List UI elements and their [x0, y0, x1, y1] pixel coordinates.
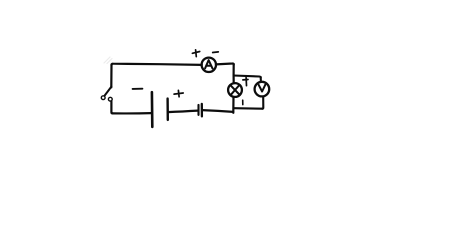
voltmeter V1 letter V [259, 85, 266, 92]
switch S1 terminal circle right [108, 97, 112, 101]
battery B1 long plate (left) [151, 92, 154, 127]
battery B1 negative label "-" [133, 88, 143, 90]
lamp L1 cross stroke 2 [231, 85, 240, 95]
voltmeter V1 circle [255, 82, 270, 97]
ammeter A1 negative label "-" [213, 51, 219, 54]
lamp L1 circle [228, 83, 242, 97]
battery B1 positive label "+" [174, 93, 183, 94]
battery B1 short plate (right) [166, 99, 169, 120]
wire voltmeter bottom vertical [262, 97, 263, 109]
cell B2 plate left [197, 105, 199, 115]
wire voltmeter branch bottom horizontal to lamp wire [234, 107, 262, 110]
wire voltmeter branch top horizontal [234, 76, 261, 78]
switch S1 blade [105, 87, 112, 96]
wire lamp bottom to main bottom wire [232, 97, 234, 113]
switch S1 terminal circle left [101, 96, 105, 100]
wire left vertical down to switch [110, 65, 112, 88]
faint pencil smudge near top-left corner [104, 57, 112, 64]
wire down to voltmeter top [260, 77, 262, 82]
wire from cell B2 to lamp branch (bottom right run) [202, 110, 233, 112]
wire from ammeter to top-right corner [216, 63, 234, 64]
wire right vertical down to voltmeter branch node [233, 64, 235, 76]
wire between battery and second cell [168, 111, 198, 113]
ammeter A1 letter A [205, 60, 212, 68]
ammeter A1 positive label "+" [192, 52, 199, 54]
wire bottom-left horizontal to battery [113, 112, 151, 115]
wire below switch down to bottom-left corner [111, 101, 112, 113]
lamp L1 cross stroke 1 [230, 85, 240, 95]
cell B2 plate right [201, 104, 203, 117]
lamp L1 negative label (vertical dash) [242, 100, 244, 104]
wire top-left corner and top horizontal run to ammeter [112, 64, 202, 65]
lamp L1 positive label "+" [243, 79, 248, 81]
ammeter A1 circle [202, 58, 216, 72]
wire node to lamp top [233, 75, 235, 83]
